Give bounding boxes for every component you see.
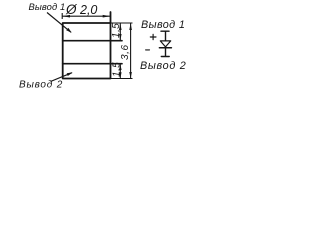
svg-text:Вывод 1: Вывод 1 [29,1,66,12]
svg-text:Ø 2,0: Ø 2,0 [65,2,97,17]
wire cathode lead [165,48,167,57]
minus polarity mark [146,49,150,51]
svg-text:Вывод 2: Вывод 2 [140,60,186,72]
cathode bar [159,47,171,49]
svg-text:1,5: 1,5 [111,62,122,77]
leader to вывод 2 cap [51,72,73,81]
svg-text:Вывод 2: Вывод 2 [19,79,63,90]
terminal bar 1 [161,30,169,32]
bottom cap boundary line (вывод 2 cap) with extension [63,63,122,65]
diode VD (triangle, anode down) [160,41,170,47]
leader to вывод 1 cap [47,13,72,33]
wire anode lead [165,31,167,41]
dimension line 1,5 (bottom cap) [119,64,122,79]
top edge extension line [111,22,133,24]
plus polarity mark [150,34,156,39]
top cap boundary line (вывод 1 cap) with extension [63,40,122,42]
bottom edge extension line [111,78,133,80]
svg-text:3,6: 3,6 [120,44,131,60]
diameter dimension line Ø2,0 [62,13,110,19]
dimension line 1,5 (top cap) [119,23,122,41]
package body outline (cylinder side view) [63,12,111,79]
svg-text:1,5: 1,5 [111,23,122,38]
dimension line 3,6 (overall height) [129,23,132,79]
svg-text:Вывод 1: Вывод 1 [141,19,185,31]
terminal bar 2 [161,56,169,58]
